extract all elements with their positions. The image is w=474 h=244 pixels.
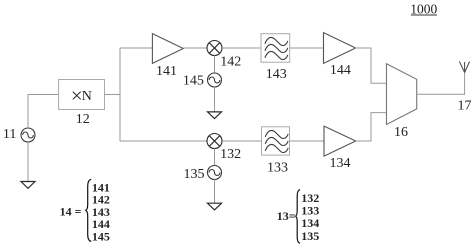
svg-text:144: 144 — [330, 63, 351, 78]
multiplier box 12 (×N) — [59, 80, 105, 110]
mixer 132 — [207, 134, 222, 149]
wire osc11 to ground — [27, 142, 29, 182]
wire combiner16 to antenna — [417, 73, 465, 95]
svg-text:132: 132 — [220, 147, 241, 162]
svg-text:13=: 13= — [277, 209, 296, 223]
wire osc145 to ground — [214, 87, 216, 112]
amplifier 141 — [152, 34, 183, 64]
figure label 1000 — [410, 1, 437, 16]
oscillator 145 — [208, 73, 222, 87]
wire amp141 to mixer142 — [183, 47, 207, 49]
ground — [208, 203, 222, 210]
legend group 13 — [277, 190, 320, 244]
wire box12 to branch node — [105, 94, 121, 96]
filter 143 — [261, 34, 290, 63]
svg-text:14 =: 14 = — [60, 205, 82, 219]
svg-text:141: 141 — [156, 64, 177, 79]
svg-text:134: 134 — [330, 156, 351, 171]
wire to amp141 — [120, 47, 152, 49]
svg-text:16: 16 — [394, 125, 408, 140]
amplifier 144 — [324, 33, 356, 64]
wire filter143 to amp144 — [290, 47, 324, 49]
wire branch to mixer132 — [120, 140, 207, 142]
amplifier 134 — [324, 126, 356, 156]
wire amp134 to combiner16 — [356, 113, 387, 141]
wire mixer142 to osc145 — [214, 56, 216, 74]
svg-text:17: 17 — [458, 98, 472, 113]
mixer 142 — [207, 41, 222, 56]
wire mixer142 to filter143 — [222, 47, 261, 49]
ground — [21, 182, 35, 189]
svg-text:135: 135 — [301, 229, 319, 243]
ground — [208, 112, 222, 119]
wire mixer132 to osc135 — [214, 149, 216, 166]
antenna 17 — [459, 62, 469, 73]
svg-text:133: 133 — [267, 160, 288, 175]
oscillator 135 — [208, 166, 222, 180]
svg-text:1000: 1000 — [410, 1, 437, 16]
svg-text:142: 142 — [220, 54, 241, 69]
combiner 16 — [387, 64, 417, 125]
filter 133 — [262, 127, 290, 155]
wire osc11 to box12 — [28, 95, 59, 129]
wire branch vertical — [119, 48, 121, 141]
oscillator 11 — [21, 128, 35, 142]
svg-text:12: 12 — [76, 112, 90, 127]
brace of group 14 — [85, 179, 91, 241]
wire osc135 to ground — [214, 180, 216, 204]
wire filter133 to amp134 — [290, 140, 325, 142]
svg-text:11: 11 — [3, 127, 16, 142]
svg-text:N: N — [82, 89, 92, 104]
svg-text:145: 145 — [183, 74, 204, 89]
brace of group 13 — [295, 190, 300, 244]
svg-text:143: 143 — [266, 67, 287, 82]
svg-text:135: 135 — [184, 167, 205, 182]
svg-text:145: 145 — [92, 229, 110, 243]
wire amp144 to combiner16 — [356, 48, 387, 83]
legend group 14 — [60, 179, 110, 243]
wire mixer132 to filter133 — [222, 140, 262, 142]
